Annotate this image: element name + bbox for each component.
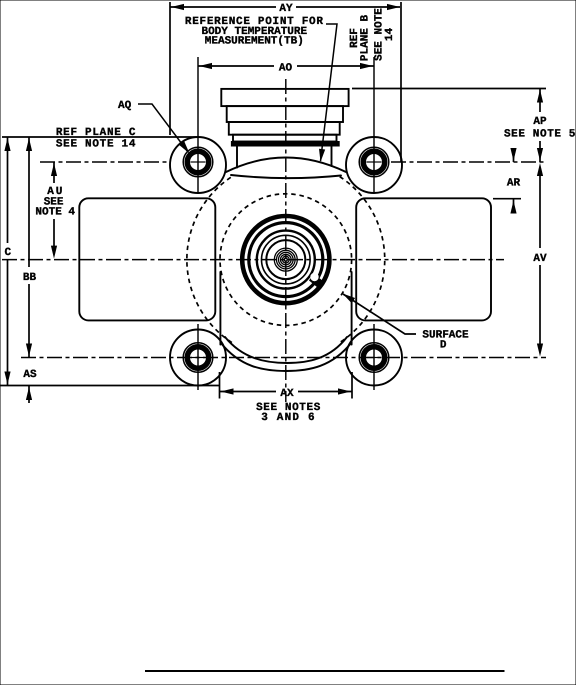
stem boss ring r=43.8: [242, 216, 329, 303]
bottom-right bolt vertical centerline: [373, 324, 375, 390]
seat notch wedge lower-right: [309, 274, 323, 288]
bottom bolt holes centerline (horizontal dashed): [21, 357, 546, 359]
stem boss ring r=5.2: [281, 254, 292, 265]
svg-text:14: 14: [384, 28, 396, 42]
bolt hole at (198,357.5): [183, 343, 213, 373]
stem boss ring r=7.2: [279, 252, 294, 267]
horizontal centerline of body: [2, 259, 504, 261]
left side port boss: [79, 198, 215, 320]
dimension AY line: [170, 6, 276, 8]
mounting lug top-right: [346, 137, 402, 193]
svg-text:PLANE B: PLANE B: [360, 15, 372, 62]
bonnet flange band (thick): [231, 142, 339, 147]
dimension AR bottom arrow: [513, 200, 515, 214]
right side port boss: [356, 198, 491, 320]
svg-text:BB: BB: [23, 272, 37, 284]
bolt hole at (374,162): [359, 147, 389, 177]
top bolt holes centerline (horizontal dashed): [40, 161, 169, 163]
body flange bottom edge (saddle outer): [221, 343, 352, 372]
outer dashed circle (body sphere) left arc: [187, 177, 232, 343]
mounting lug top-left: [170, 137, 226, 193]
svg-text:AV: AV: [533, 253, 547, 265]
bonnet cap step 4: [233, 135, 337, 142]
svg-text:D: D: [440, 339, 447, 351]
ball surface dashed circle (inner): [220, 194, 352, 326]
dimension AX label: [256, 388, 321, 424]
stem boss ring r=3.2: [282, 256, 289, 263]
REF PLANE C line: [2, 136, 199, 138]
bonnet neck right edge: [331, 146, 333, 166]
svg-text:AR: AR: [507, 178, 521, 190]
bonnet cap step 2: [227, 106, 343, 122]
bottom rule line: [145, 670, 505, 672]
bonnet cap step 3: [229, 122, 340, 135]
vertical centerline of body: [285, 79, 287, 402]
AY extension line left: [169, 2, 171, 135]
svg-text:C: C: [4, 247, 11, 259]
bonnet neck left edge: [236, 146, 238, 168]
dimension AV line: [539, 175, 541, 344]
body flange left edge: [219, 272, 221, 345]
stem boss ring r=11.4: [274, 248, 297, 271]
dimension AU line: [53, 162, 55, 246]
svg-text:3 AND 6: 3 AND 6: [261, 412, 316, 424]
stem boss ring r=37: [249, 223, 323, 297]
REF PLANE B extension line (AY right): [400, 2, 402, 162]
AX extension line left: [219, 372, 221, 399]
dimension AU label: [35, 186, 75, 219]
stem boss ring r=1.4: [284, 258, 287, 261]
cap top extension line (AP reference): [352, 88, 546, 90]
dimension BB line: [28, 137, 30, 358]
reference point leader: [321, 24, 338, 161]
stem boss ring r=29: [257, 231, 315, 289]
dimension AX line: [220, 391, 353, 393]
bolt hole at (374,357.5): [359, 343, 389, 373]
mounting lug bottom-right: [346, 330, 402, 386]
svg-text:NOTE 4: NOTE 4: [35, 207, 75, 219]
svg-text:AS: AS: [23, 369, 37, 381]
AQ leader: [138, 104, 188, 152]
bottom-left bolt vertical centerline: [197, 324, 199, 390]
stem boss ring r=24.3: [262, 235, 311, 284]
svg-text:AY: AY: [279, 3, 293, 15]
body hub top arc: [226, 158, 346, 173]
top-right bolt vertical centerline: [373, 57, 375, 193]
svg-text:SEE NOTE 14: SEE NOTE 14: [56, 139, 136, 151]
reference point note text: [185, 16, 324, 47]
dimension AR top arrow: [513, 149, 515, 162]
dimension AO line: [198, 65, 374, 67]
AX extension line right: [351, 372, 353, 399]
body flange top edge: [231, 175, 341, 178]
outer dashed circle (body sphere) right arc: [340, 177, 385, 343]
bonnet cap step 1: [221, 89, 348, 106]
body flange right edge: [351, 272, 353, 345]
SURFACE D label: [422, 330, 469, 352]
dimension AS bottom arrow: [28, 386, 30, 403]
stem boss ring r=19.5: [266, 240, 305, 279]
body bottom extension line: [0, 385, 220, 387]
bolt hole at (198,162): [183, 147, 213, 177]
body hub bottom arc (saddle inner): [225, 337, 347, 363]
svg-text:AP: AP: [533, 116, 547, 128]
stem boss ring r=9.2: [277, 250, 296, 269]
dimension C line: [7, 137, 9, 386]
svg-text:AX: AX: [280, 388, 294, 400]
top-left bolt vertical centerline: [197, 57, 199, 193]
svg-text:MEASUREMENT(TB): MEASUREMENT(TB): [205, 35, 304, 47]
svg-text:AQ: AQ: [118, 100, 132, 112]
SURFACE D leader: [343, 294, 416, 334]
dimension AP line: [539, 89, 541, 163]
port top edge extension line: [493, 198, 521, 200]
REF PLANE B label (rotated): [349, 15, 372, 62]
svg-text:AO: AO: [279, 63, 293, 75]
svg-text:SEE NOTE 5: SEE NOTE 5: [504, 129, 576, 141]
mounting lug bottom-left: [170, 330, 226, 386]
SEE NOTE 14 label right (rotated): [374, 8, 397, 61]
